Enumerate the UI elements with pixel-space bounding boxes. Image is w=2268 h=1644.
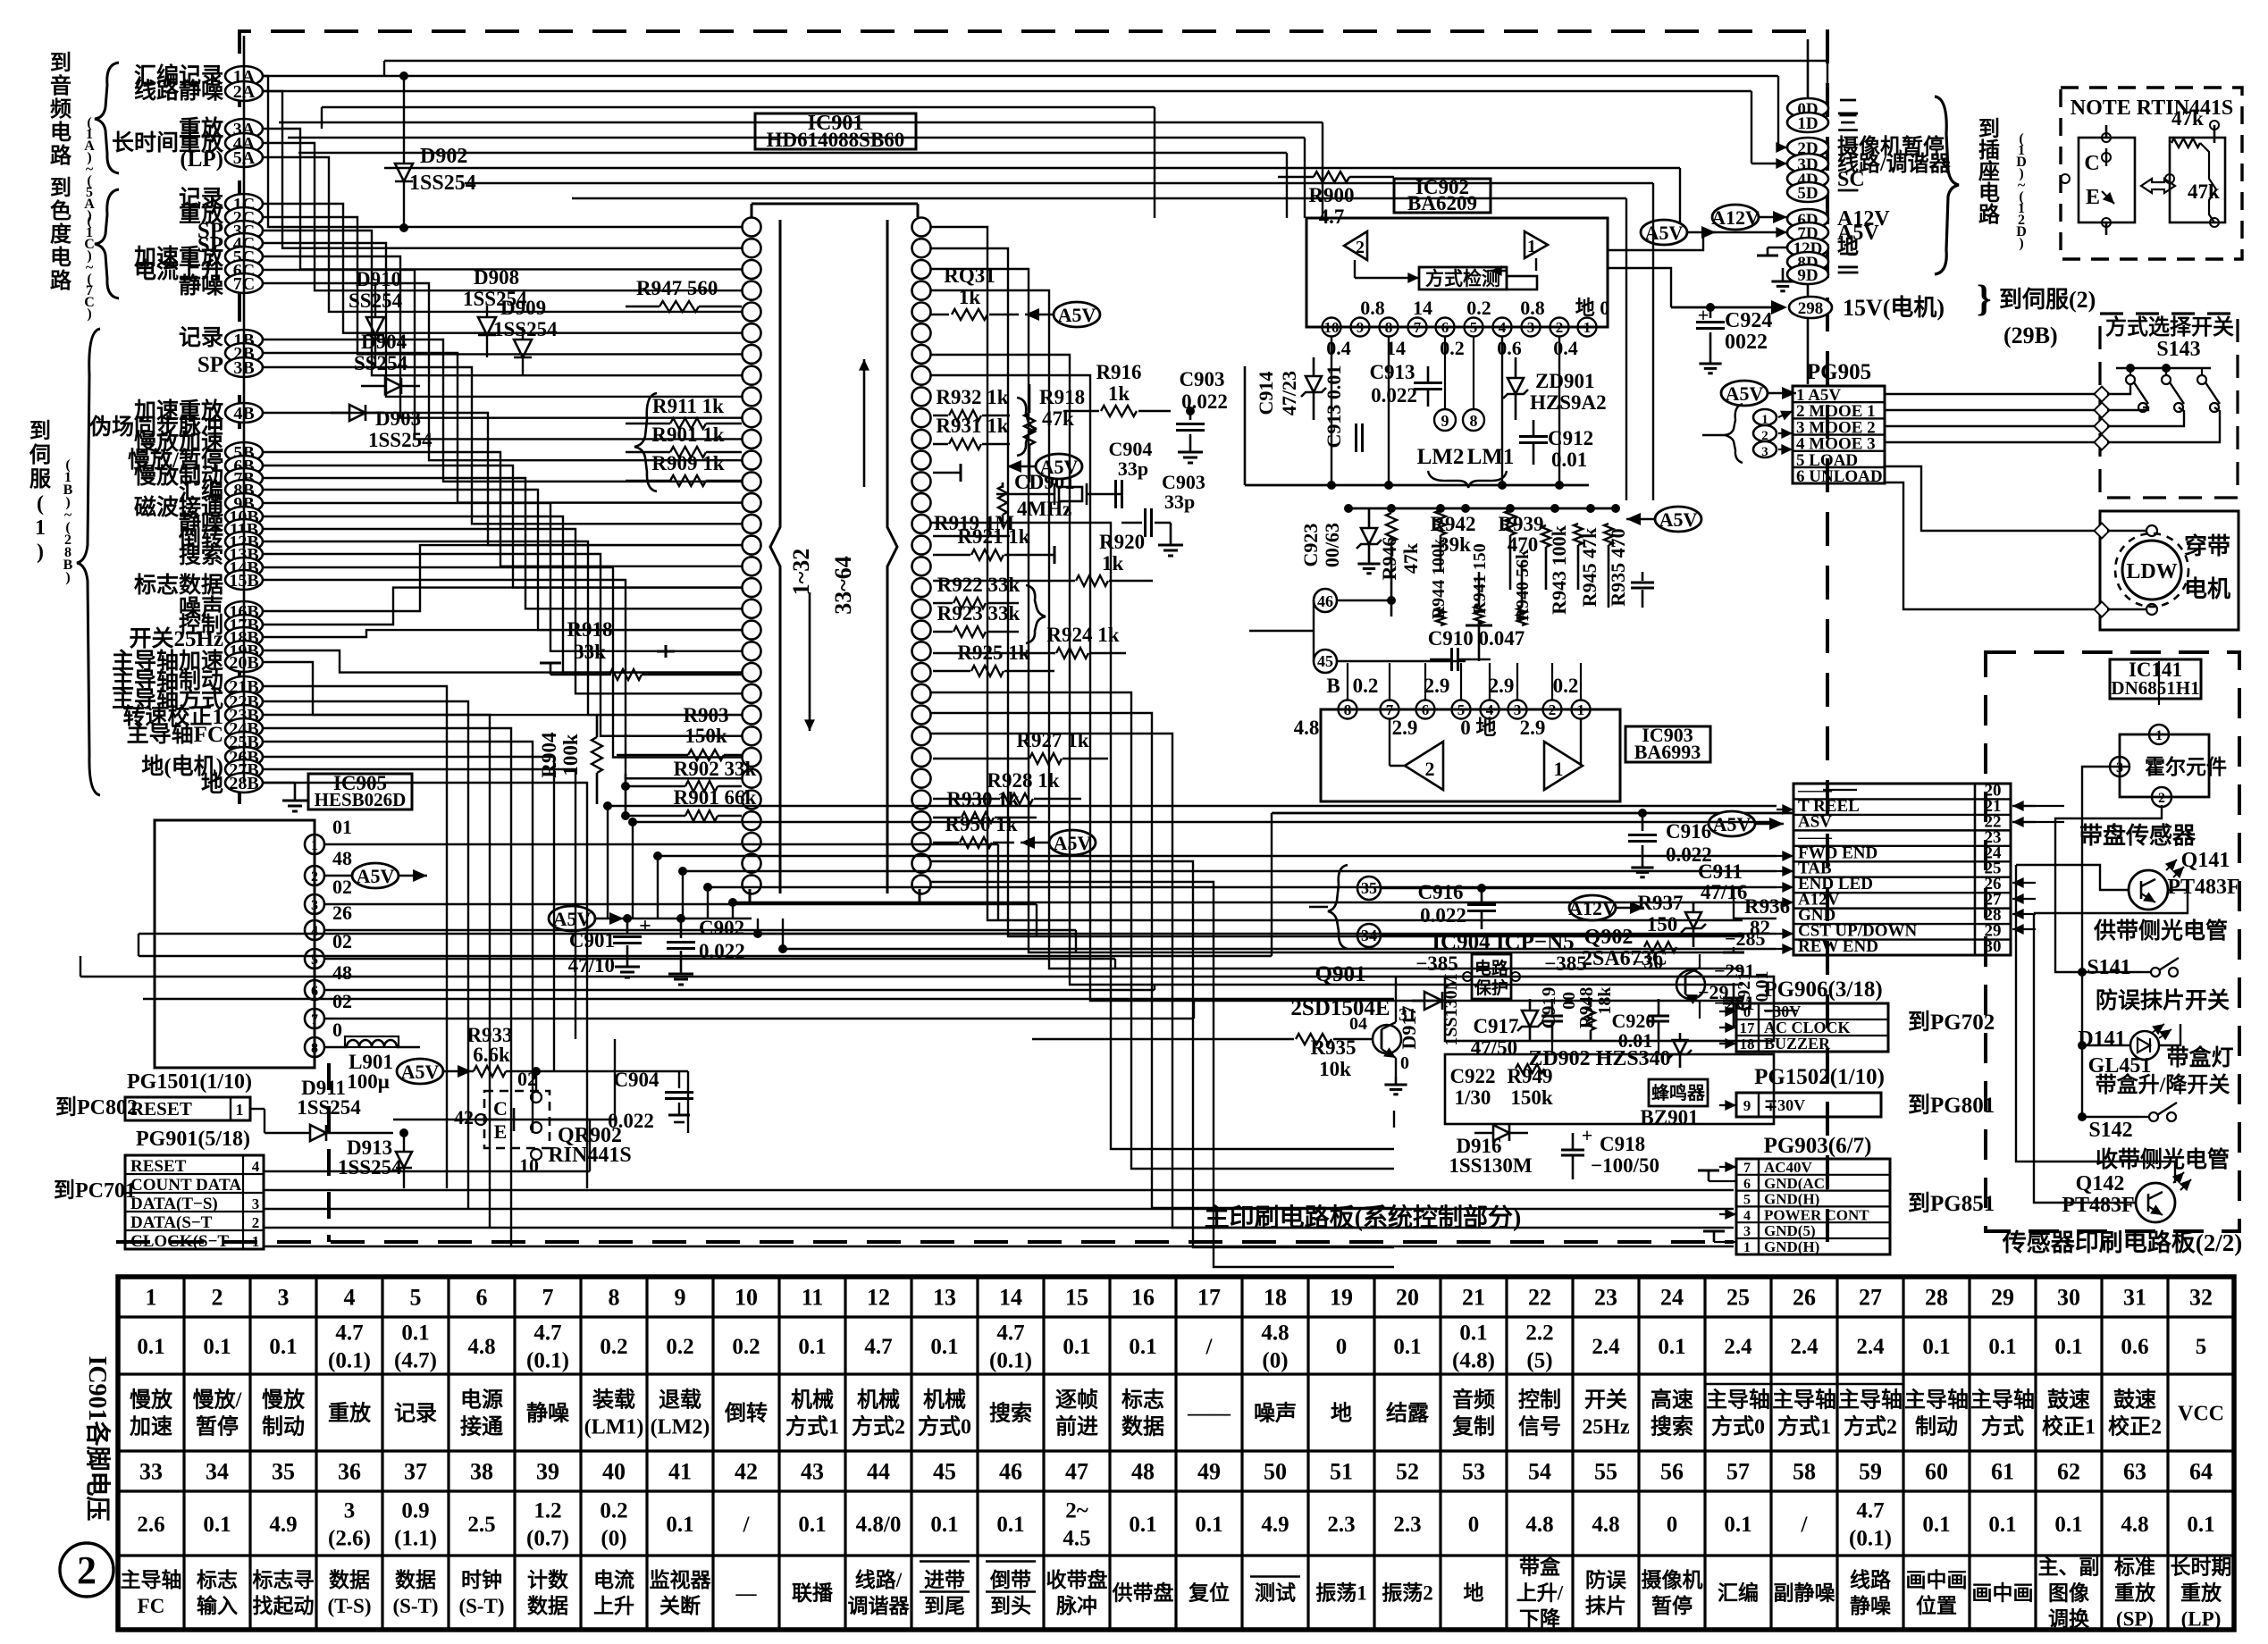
svg-text:慢放/: 慢放/ — [193, 1387, 242, 1412]
wire — [263, 143, 742, 290]
svg-text:C903: C903 — [1179, 368, 1224, 390]
svg-text:0.1: 0.1 — [137, 1335, 164, 1359]
svg-text:8: 8 — [311, 1041, 318, 1056]
IC902 label box BA6209 — [1394, 179, 1491, 213]
svg-text:1k: 1k — [1108, 382, 1130, 405]
svg-text:C: C — [2084, 152, 2099, 175]
svg-text:LM2: LM2 — [1417, 445, 1465, 469]
svg-text:地: 地 — [201, 772, 223, 797]
svg-text:供带侧光电管: 供带侧光电管 — [2093, 918, 2228, 944]
svg-text:(SP): (SP) — [2116, 1608, 2154, 1631]
wire — [682, 871, 684, 918]
A5V near IC902 — [1641, 220, 1687, 245]
svg-text:R911 1k: R911 1k — [652, 395, 724, 417]
svg-text:33: 33 — [139, 1459, 163, 1485]
svg-text:到头: 到头 — [990, 1595, 1031, 1617]
IC903 pins 8-1 — [1339, 700, 1357, 719]
svg-text:8: 8 — [1344, 701, 1352, 718]
svg-text:02: 02 — [517, 1068, 537, 1090]
svg-text:0.4: 0.4 — [1553, 337, 1578, 359]
svg-text:30: 30 — [1985, 937, 2002, 956]
connector pin 15B — [225, 570, 263, 590]
svg-text:28: 28 — [1925, 1285, 1948, 1311]
svg-text:电: 电 — [1978, 181, 2000, 205]
wire — [321, 107, 323, 129]
svg-text:33p: 33p — [1164, 491, 1195, 513]
svg-text:标志: 标志 — [197, 1569, 238, 1591]
svg-text:A5V: A5V — [1713, 813, 1751, 835]
wire — [298, 152, 1287, 154]
svg-text:35: 35 — [272, 1459, 295, 1485]
wire — [658, 855, 1777, 857]
wire — [264, 1246, 1734, 1247]
svg-text:找起动: 找起动 — [253, 1595, 315, 1617]
wire — [263, 742, 533, 1133]
svg-text:摄像机: 摄像机 — [1642, 1568, 1703, 1591]
connector pin 28B — [225, 773, 263, 793]
wire — [263, 554, 742, 736]
svg-text:4.9: 4.9 — [1261, 1513, 1289, 1537]
wires PG905 LOAD/UNLOAD to motor — [1885, 466, 2102, 531]
connector pin 2A — [225, 81, 263, 101]
wire — [1625, 198, 1627, 500]
svg-text:(5): (5) — [1526, 1348, 1552, 1372]
wire — [931, 355, 1743, 985]
svg-text:A5V: A5V — [401, 1061, 440, 1083]
svg-text:02: 02 — [332, 990, 352, 1012]
connector pin 26B — [225, 747, 263, 767]
svg-text:0.01: 0.01 — [1551, 449, 1587, 471]
A5V supply to C901/C902 — [549, 906, 595, 931]
svg-text:方式1: 方式1 — [1777, 1413, 1831, 1438]
wire — [263, 686, 447, 1188]
svg-text:0.1: 0.1 — [203, 1513, 231, 1537]
main PCB dashed border — [239, 31, 1827, 1242]
svg-text:8: 8 — [609, 1285, 620, 1311]
svg-text:VCC: VCC — [2178, 1402, 2224, 1425]
wire — [263, 243, 742, 397]
svg-text:标准: 标准 — [2114, 1556, 2155, 1579]
wire — [264, 1170, 590, 1172]
svg-text:4.8: 4.8 — [1294, 717, 1320, 739]
svg-text:0.1: 0.1 — [666, 1513, 693, 1537]
capacitor small at pin — [665, 645, 668, 658]
svg-text:R921 1k: R921 1k — [957, 525, 1029, 548]
svg-text:3: 3 — [278, 1285, 290, 1311]
connector pin 3C — [225, 221, 263, 240]
svg-text:鼓速: 鼓速 — [2113, 1388, 2156, 1412]
svg-text:S142: S142 — [2088, 1119, 2132, 1142]
svg-text:47: 47 — [1065, 1459, 1088, 1485]
svg-text:R924 1k: R924 1k — [1046, 624, 1119, 646]
wire — [263, 256, 742, 418]
arrows out of REEL right side — [2012, 805, 2036, 807]
svg-text:E: E — [494, 1120, 508, 1143]
wire — [384, 60, 1827, 62]
svg-text:−385: −385 — [1544, 952, 1587, 975]
svg-text:6 UNLOAD: 6 UNLOAD — [1796, 467, 1883, 486]
svg-text:—: — — [735, 1582, 758, 1605]
svg-text:调谐器: 调谐器 — [848, 1595, 911, 1617]
svg-text:C923: C923 — [1299, 524, 1322, 567]
svg-text:R935 470: R935 470 — [1607, 528, 1629, 606]
svg-text:进带: 进带 — [924, 1569, 965, 1591]
svg-text:50: 50 — [1264, 1459, 1287, 1485]
wire — [465, 182, 1653, 184]
wire — [1075, 930, 1077, 952]
svg-text:数据: 数据 — [527, 1595, 568, 1617]
svg-text:Q901: Q901 — [1315, 962, 1366, 986]
svg-text:0: 0 — [1460, 717, 1471, 739]
svg-text:1: 1 — [1577, 701, 1585, 718]
svg-text:1: 1 — [311, 838, 318, 853]
svg-text:42: 42 — [735, 1459, 758, 1485]
svg-text:−100/50: −100/50 — [1591, 1154, 1659, 1177]
svg-text:结露: 结露 — [1386, 1401, 1430, 1425]
svg-text:33p: 33p — [1118, 457, 1148, 480]
svg-text:开关: 开关 — [1584, 1388, 1627, 1412]
svg-text:48: 48 — [332, 961, 352, 984]
svg-text:机械: 机械 — [791, 1388, 834, 1412]
svg-text:1: 1 — [1527, 237, 1536, 256]
svg-text:1k: 1k — [1102, 552, 1124, 575]
svg-text:保护: 保护 — [1474, 977, 1508, 998]
connector pin 5B — [225, 442, 263, 462]
svg-text:HD614088SB60: HD614088SB60 — [767, 129, 905, 151]
svg-text:到: 到 — [29, 419, 51, 443]
wire — [1793, 784, 1794, 813]
svg-text:振荡2: 振荡2 — [1382, 1581, 1433, 1605]
wire — [324, 843, 998, 845]
svg-text:3: 3 — [344, 1498, 356, 1522]
wire — [263, 529, 742, 693]
svg-text:慢放: 慢放 — [130, 1387, 173, 1412]
svg-text:鼓速: 鼓速 — [2047, 1388, 2090, 1412]
svg-text:(4.8): (4.8) — [1452, 1348, 1495, 1372]
svg-text:18: 18 — [1264, 1285, 1287, 1311]
svg-text:监视器: 监视器 — [650, 1568, 712, 1591]
svg-text:复制: 复制 — [1451, 1414, 1495, 1438]
svg-text:R942: R942 — [1430, 513, 1475, 535]
svg-text:GND(AC): GND(AC) — [1764, 1175, 1830, 1192]
svg-text:10: 10 — [1324, 319, 1340, 336]
svg-text:0.2: 0.2 — [1466, 297, 1491, 319]
connector pin 19B — [225, 641, 263, 660]
svg-text:NOTE RTIN441S: NOTE RTIN441S — [2071, 96, 2234, 120]
svg-text:C916: C916 — [1417, 881, 1463, 903]
svg-text:4: 4 — [311, 924, 318, 939]
svg-text:到PG851: 到PG851 — [1908, 1191, 1995, 1216]
svg-text:(29B): (29B) — [2003, 323, 2058, 348]
svg-text:58: 58 — [1793, 1459, 1816, 1485]
svg-text:收带侧光电管: 收带侧光电管 — [2096, 1146, 2230, 1172]
connector pin 24B — [225, 718, 263, 738]
svg-text:标志数据: 标志数据 — [134, 573, 223, 598]
svg-text:0: 0 — [1336, 1335, 1348, 1359]
svg-text:复位: 复位 — [1188, 1581, 1230, 1605]
connector pin 23B — [225, 705, 263, 725]
svg-text:C921: C921 — [1735, 972, 1754, 1011]
svg-text:}: } — [1977, 279, 1992, 320]
wire — [263, 452, 742, 566]
svg-text:到PC701: 到PC701 — [54, 1178, 136, 1203]
svg-text:0.01: 0.01 — [1752, 971, 1772, 1002]
svg-text:PG905: PG905 — [1807, 360, 1871, 384]
svg-text:6: 6 — [311, 984, 318, 999]
svg-text:29: 29 — [1991, 1285, 2014, 1311]
svg-text:(0.1): (0.1) — [989, 1348, 1032, 1372]
svg-text:0: 0 — [1667, 1513, 1678, 1537]
wire — [288, 137, 1305, 138]
IC902 pins 10-1 — [1323, 318, 1341, 337]
svg-text:COUNT DATA: COUNT DATA — [130, 1176, 241, 1195]
svg-text:0.2: 0.2 — [600, 1498, 627, 1522]
svg-text:2.3: 2.3 — [1327, 1513, 1355, 1537]
wire — [733, 902, 1777, 903]
IC903 amp triangle 2 — [1405, 742, 1443, 790]
wire — [139, 955, 1272, 957]
svg-text:4.9: 4.9 — [269, 1513, 297, 1537]
wire — [931, 375, 1743, 1001]
svg-text:5D: 5D — [1797, 184, 1818, 203]
arrows into REEL rows — [1777, 809, 1793, 810]
svg-text:48: 48 — [1131, 1459, 1155, 1485]
svg-text:R945 47k: R945 47k — [1578, 527, 1600, 607]
svg-text:): ) — [37, 541, 44, 564]
svg-text:逐帧: 逐帧 — [1055, 1388, 1098, 1412]
svg-text:电流: 电流 — [593, 1568, 634, 1591]
wires PG905 to S143 — [1885, 393, 2102, 395]
svg-text:13: 13 — [933, 1285, 956, 1311]
wire — [931, 734, 1394, 1228]
svg-text:0: 0 — [1468, 1513, 1480, 1537]
wire — [263, 701, 468, 1208]
svg-text:PG906(3/18): PG906(3/18) — [1763, 977, 1882, 1002]
svg-text:线路/: 线路/ — [855, 1568, 903, 1591]
svg-text:0.1: 0.1 — [401, 1321, 429, 1345]
svg-text:2.9: 2.9 — [1520, 717, 1546, 739]
wire — [1424, 663, 1426, 700]
svg-text:PG901(5/18): PG901(5/18) — [136, 1128, 250, 1151]
wire — [1608, 268, 1671, 307]
svg-text:3: 3 — [1527, 319, 1535, 336]
svg-text:2.6: 2.6 — [137, 1513, 164, 1537]
wire — [263, 728, 511, 1247]
svg-text:测试: 测试 — [1255, 1582, 1296, 1605]
svg-text:2.4: 2.4 — [1790, 1335, 1819, 1359]
connector pin 2B — [225, 343, 263, 363]
wire — [997, 844, 999, 920]
svg-text:63: 63 — [2123, 1459, 2146, 1485]
svg-text:防误: 防误 — [1585, 1568, 1627, 1591]
svg-text:电: 电 — [50, 246, 71, 270]
svg-text:2: 2 — [1549, 701, 1557, 718]
svg-text:0.2: 0.2 — [732, 1335, 760, 1359]
svg-text:1: 1 — [236, 1101, 244, 1119]
svg-text:24: 24 — [1660, 1285, 1684, 1311]
svg-text:C924: C924 — [1725, 309, 1772, 332]
svg-text:C914: C914 — [1255, 372, 1277, 415]
A12V into 6D — [1712, 205, 1759, 230]
svg-text:控制: 控制 — [1518, 1387, 1561, 1412]
svg-text:方式2: 方式2 — [1844, 1413, 1897, 1438]
wire — [263, 270, 742, 439]
wire — [263, 715, 490, 1228]
svg-text:0.4: 0.4 — [1326, 337, 1351, 359]
svg-text:E: E — [2086, 186, 2100, 209]
arrows into PG906/PG903 — [1719, 1011, 1736, 1012]
wire — [1114, 959, 1116, 969]
svg-text:路: 路 — [50, 268, 72, 293]
svg-text:4.5: 4.5 — [1063, 1526, 1090, 1550]
svg-text:A5V: A5V — [1726, 382, 1764, 405]
svg-text:HESB026D: HESB026D — [315, 789, 407, 810]
A5V oval mid — [1036, 454, 1082, 479]
wires Q901 cluster — [1412, 1000, 1445, 1002]
svg-text:搜索: 搜索 — [179, 543, 223, 568]
svg-text:ZD901: ZD901 — [1535, 370, 1594, 392]
wire — [1734, 888, 1777, 918]
svg-text:0.2: 0.2 — [1353, 675, 1379, 697]
wire — [263, 650, 742, 673]
IC903 body — [1321, 709, 1620, 801]
ground near IC902 — [1782, 268, 1785, 273]
svg-text:4.7: 4.7 — [996, 1321, 1024, 1345]
svg-text:1: 1 — [35, 516, 46, 540]
wire — [931, 269, 1743, 952]
wire — [536, 1070, 688, 1072]
svg-text:R950 1k: R950 1k — [945, 813, 1017, 835]
svg-text:主导轴: 主导轴 — [1904, 1387, 1969, 1412]
svg-text:R920: R920 — [1099, 531, 1145, 553]
svg-text:0.1: 0.1 — [1459, 1321, 1487, 1345]
svg-text:线路: 线路 — [1850, 1568, 1892, 1591]
svg-text:方式: 方式 — [1981, 1413, 2024, 1438]
wire — [80, 976, 1445, 977]
svg-text:(S-T): (S-T) — [392, 1595, 438, 1617]
svg-text:0: 0 — [1400, 1053, 1409, 1073]
svg-text:制动: 制动 — [262, 1414, 305, 1438]
IC902 amp triangle 1 — [1525, 231, 1548, 258]
svg-text:度: 度 — [50, 222, 72, 247]
IC905 pins 1-8 — [305, 835, 324, 854]
pin circle 34 — [1357, 924, 1381, 947]
svg-text:150k: 150k — [1510, 1086, 1553, 1109]
svg-text:R939: R939 — [1498, 513, 1543, 535]
connector pin 1A — [225, 66, 263, 86]
svg-text:R925 1k: R925 1k — [957, 642, 1029, 664]
svg-text:A12V: A12V — [1568, 897, 1617, 919]
svg-text:D910: D910 — [356, 268, 401, 290]
capacitor C924 0022 — [1709, 307, 1712, 318]
connector pin 14B — [225, 558, 263, 577]
svg-text:0.1: 0.1 — [1393, 1335, 1421, 1359]
svg-text:0.6: 0.6 — [2121, 1335, 2148, 1359]
svg-text:插: 插 — [1978, 138, 2000, 163]
wire — [263, 567, 742, 758]
load motor box 穿带电机 — [2100, 511, 2239, 630]
svg-text:(1.1): (1.1) — [394, 1526, 437, 1550]
wire — [1271, 813, 1273, 956]
svg-text:A5V: A5V — [1040, 456, 1079, 478]
svg-text:0.9: 0.9 — [401, 1498, 429, 1522]
svg-text:1SS254: 1SS254 — [338, 1156, 402, 1178]
svg-text:4.8: 4.8 — [1261, 1321, 1289, 1345]
svg-text:0.8: 0.8 — [1360, 297, 1385, 319]
svg-text:0.2: 0.2 — [600, 1335, 627, 1359]
A12V oval near 34 — [1569, 895, 1616, 920]
svg-text:方式0: 方式0 — [1711, 1413, 1765, 1438]
svg-text:REW END: REW END — [1798, 937, 1878, 956]
svg-text:主导轴: 主导轴 — [121, 1568, 182, 1591]
svg-text:加速: 加速 — [130, 1414, 172, 1438]
svg-text:0.1: 0.1 — [269, 1335, 297, 1359]
svg-text:R946: R946 — [1378, 537, 1400, 581]
wire — [263, 129, 742, 269]
IC902 amp triangle 2 — [1344, 231, 1367, 260]
svg-text:R904: R904 — [538, 732, 560, 778]
svg-text:脉冲: 脉冲 — [1055, 1595, 1097, 1617]
svg-text:0.2: 0.2 — [666, 1335, 693, 1359]
svg-text:BA6209: BA6209 — [1407, 192, 1477, 214]
svg-text:62: 62 — [2057, 1459, 2080, 1485]
svg-text:10k: 10k — [1319, 1058, 1351, 1080]
svg-text:图像: 图像 — [2048, 1581, 2090, 1605]
wire — [758, 933, 1777, 935]
svg-text:0.1: 0.1 — [203, 1335, 231, 1359]
svg-text:57: 57 — [1726, 1459, 1750, 1485]
svg-text:到尾: 到尾 — [924, 1595, 965, 1617]
svg-text:7: 7 — [542, 1285, 554, 1311]
switch S142 — [2149, 1112, 2158, 1121]
svg-text:R927 1k: R927 1k — [1016, 729, 1088, 751]
sensor PCB dashed border — [1986, 652, 2239, 1231]
svg-text:−385: −385 — [1415, 952, 1458, 975]
svg-text:音频: 音频 — [1452, 1387, 1495, 1412]
svg-text:25: 25 — [1726, 1285, 1750, 1311]
svg-text:噪声: 噪声 — [1254, 1400, 1297, 1425]
svg-text:频: 频 — [50, 97, 71, 122]
wire — [1322, 122, 1323, 218]
svg-text:6: 6 — [1422, 701, 1430, 718]
inductor L901 100u — [324, 1046, 347, 1049]
svg-text:25Hz: 25Hz — [1582, 1415, 1630, 1438]
svg-text:54: 54 — [1528, 1459, 1551, 1485]
wire — [263, 75, 1778, 77]
svg-text:方式2: 方式2 — [852, 1413, 905, 1438]
wire — [931, 227, 1743, 920]
svg-text:): ) — [2019, 236, 2023, 251]
svg-text:0022: 0022 — [1725, 331, 1768, 354]
svg-text:21: 21 — [1462, 1285, 1485, 1311]
wire — [139, 933, 1028, 935]
svg-text:2.4: 2.4 — [1856, 1335, 1885, 1359]
svg-text:数据: 数据 — [1121, 1414, 1164, 1438]
svg-text:∓30V: ∓30V — [1764, 1096, 1805, 1114]
svg-text:穿带: 穿带 — [2184, 533, 2230, 559]
svg-text:0.1: 0.1 — [2054, 1335, 2082, 1359]
wire — [263, 466, 742, 588]
svg-text:/: / — [1801, 1513, 1809, 1537]
wire — [783, 948, 1777, 950]
svg-text:0.1: 0.1 — [996, 1513, 1024, 1537]
connector pin 12B — [225, 532, 263, 551]
D connector pins — [1787, 98, 1828, 118]
wire — [1193, 1001, 1195, 1019]
wire — [1286, 153, 1288, 218]
svg-text:0.1: 0.1 — [2187, 1513, 2214, 1537]
capacitor pin13 stub — [933, 472, 961, 474]
